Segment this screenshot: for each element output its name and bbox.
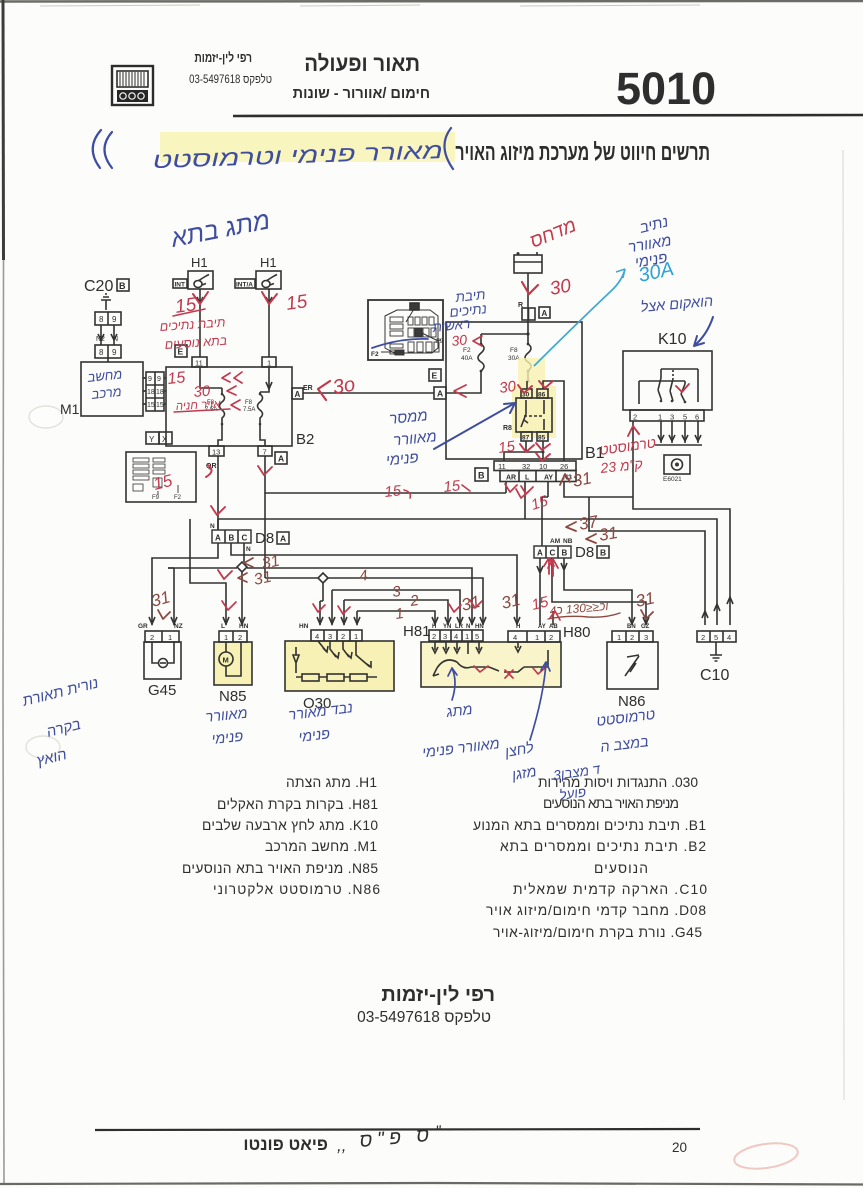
- svg-text:2: 2: [238, 633, 242, 642]
- svg-text:5: 5: [683, 413, 687, 422]
- wire B2 pin7 to B1 AR: [265, 456, 506, 493]
- svg-text:6: 6: [695, 413, 699, 422]
- svg-text:AY: AY: [544, 475, 553, 482]
- svg-text:7.5A: 7.5A: [243, 407, 255, 413]
- svg-text:A: A: [537, 549, 543, 558]
- relay 87/85 wires down: [504, 441, 543, 461]
- svg-text:טלפקס 03-5497618: טלפקס 03-5497618: [357, 1009, 491, 1026]
- fusebox illustration top: [368, 300, 444, 360]
- fuse F2 40A: [478, 344, 484, 371]
- B1 bottom pin strip: [494, 461, 576, 471]
- svg-text:B: B: [600, 548, 606, 558]
- svg-text:2: 2: [549, 633, 553, 642]
- svg-text:N: N: [113, 336, 118, 343]
- handwritten blue note in parens: [444, 128, 453, 169]
- wire B2 pin7 down to row4: [264, 493, 266, 578]
- battery wire down: [527, 273, 529, 322]
- B2 top pin 1: [262, 357, 276, 367]
- K10 ground wires: [661, 421, 698, 443]
- svg-text:40A: 40A: [461, 355, 473, 362]
- red up arrow at D8B: [544, 558, 554, 574]
- svg-text:BN: BN: [627, 624, 636, 630]
- svg-text:2: 2: [701, 633, 705, 642]
- svg-text:E6021: E6021: [663, 476, 682, 483]
- svg-text:31: 31: [634, 588, 656, 611]
- svg-text:AY: AY: [538, 624, 546, 630]
- svg-text:N: N: [210, 523, 215, 530]
- svg-text:9: 9: [112, 348, 117, 357]
- svg-text:2: 2: [432, 632, 436, 641]
- G45 pin1 vertical: [168, 568, 174, 625]
- header: [112, 51, 863, 116]
- O30 pin4 feed: [320, 601, 323, 625]
- svg-text:1: 1: [535, 633, 539, 642]
- svg-text:4: 4: [513, 633, 517, 642]
- connector A box near pin7: [275, 452, 287, 464]
- svg-text:1: 1: [658, 413, 662, 422]
- svg-text:AR: AR: [506, 475, 516, 482]
- svg-text:D8: D8: [575, 544, 594, 561]
- front earth C10: [697, 631, 736, 684]
- svg-text:D08. מחבר קדמי חימום/מיזוג אוי: D08. מחבר קדמי חימום/מיזוג אויר: [486, 903, 706, 918]
- svg-text:M1: M1: [60, 401, 80, 417]
- svg-text:N: N: [246, 546, 251, 553]
- red V on QR wire above D8A: [211, 506, 225, 515]
- svg-text:5: 5: [475, 632, 479, 641]
- red marks inside panel box: [474, 666, 545, 678]
- wire H1#2 down: [268, 289, 270, 357]
- C10 feed arrowheads: [702, 597, 733, 618]
- B2-B1 link wire: [303, 392, 434, 394]
- red 30 at battery: [522, 282, 538, 294]
- svg-text:A: A: [437, 389, 443, 399]
- svg-text:1: 1: [617, 633, 621, 642]
- svg-text:1: 1: [354, 632, 358, 641]
- left edge scan line: [2, 0, 6, 260]
- wire AY down to D8B: [542, 482, 548, 547]
- svg-text:15: 15: [384, 482, 403, 501]
- svg-text:9: 9: [157, 376, 161, 383]
- svg-text:K10. מתג לחץ ארבעה שלבים: K10. מתג לחץ ארבעה שלבים: [202, 818, 378, 833]
- svg-text:4: 4: [727, 633, 731, 642]
- red Vs at B1 AR L cells: [505, 484, 533, 494]
- red arrow near B1 A: [454, 385, 466, 397]
- svg-text:F8: F8: [510, 347, 518, 354]
- svg-text:15: 15: [497, 438, 517, 457]
- svg-text:M1. מחשב המרכב: M1. מחשב המרכב: [265, 839, 377, 854]
- svg-text:A: A: [542, 309, 548, 318]
- svg-text:N85. מניפת האויר בתא הנוסעים: N85. מניפת האויר בתא הנוסעים: [182, 861, 378, 876]
- svg-text:M: M: [223, 656, 229, 665]
- svg-text:B: B: [119, 281, 126, 291]
- svg-text:15: 15: [167, 369, 187, 388]
- svg-text:AB: AB: [549, 624, 558, 630]
- svg-text:C: C: [550, 549, 556, 558]
- svg-text:B2: B2: [296, 431, 314, 448]
- svg-text:1: 1: [267, 359, 271, 368]
- svg-text:N2: N2: [96, 336, 105, 343]
- svg-text:ER: ER: [303, 385, 313, 392]
- connector E label left of wire: [175, 345, 187, 357]
- svg-text:N85: N85: [219, 688, 247, 705]
- thermostat N86: [607, 624, 658, 710]
- svg-text:B: B: [562, 549, 568, 558]
- schematic printed: [60, 255, 444, 502]
- svg-text:3o: 3o: [331, 373, 357, 399]
- B1 left E box: [429, 369, 441, 381]
- svg-text:15: 15: [443, 477, 462, 496]
- red arrow K10 pin2 wire: [628, 426, 639, 436]
- svg-text:C20: C20: [84, 278, 113, 295]
- svg-text:5: 5: [714, 633, 718, 642]
- svg-text:GZ: GZ: [641, 624, 650, 630]
- svg-text:פנימי: פנימי: [385, 449, 419, 469]
- connector D8 A: [210, 523, 289, 553]
- Y X boxes: [146, 432, 159, 444]
- svg-text:B: B: [478, 471, 485, 481]
- red V at B2 pin7 bottom: [258, 466, 272, 475]
- cyan pointer line: [534, 269, 625, 366]
- svg-text:HN: HN: [239, 623, 249, 630]
- connector C20 label: [84, 278, 129, 362]
- wires with arrows between connectors: [101, 325, 114, 345]
- handwritten annotations: [20, 206, 714, 803]
- footer rule: [95, 1129, 700, 1130]
- svg-text:8: 8: [99, 348, 104, 357]
- wires middle: [149, 421, 733, 625]
- M1 pin columns: [146, 372, 164, 411]
- svg-text:תרשים חיווט של מערכת מיזוג האו: תרשים חיווט של מערכת מיזוג האויר: [455, 140, 710, 166]
- pink blob bottom right: [733, 1140, 800, 1173]
- svg-text:H1. מתג הצתה: H1. מתג הצתה: [286, 775, 377, 790]
- svg-text:INT/A: INT/A: [236, 282, 253, 289]
- svg-text:H: H: [432, 624, 436, 630]
- svg-text:26: 26: [560, 462, 568, 471]
- red V at N85 pin1: [218, 570, 232, 579]
- blower N85: [214, 623, 252, 705]
- node diamond row31: [237, 562, 247, 572]
- svg-text:E: E: [432, 371, 438, 381]
- svg-text:3: 3: [443, 632, 447, 641]
- connector D8 B: [534, 538, 609, 561]
- svg-text:H1: H1: [191, 255, 208, 270]
- svg-text:13: 13: [212, 448, 220, 457]
- svg-text:2: 2: [630, 633, 634, 642]
- svg-text:1: 1: [465, 632, 469, 641]
- wire to C10 pin2: [589, 497, 705, 625]
- svg-text:18: 18: [147, 389, 155, 396]
- B1 left A box: [434, 387, 446, 399]
- B2 internal wires + fuses: [200, 367, 269, 392]
- svg-text:רפי לין-יזמות: רפי לין-יזמות: [194, 51, 252, 65]
- fuse F8b: [258, 392, 263, 424]
- F8 yellow highlight: [518, 358, 545, 386]
- svg-text:18: 18: [156, 389, 164, 396]
- maroon 37 arrow: [566, 522, 576, 531]
- wire H1#1 down: [199, 289, 201, 357]
- svg-text:15: 15: [156, 402, 164, 409]
- svg-text:AM: AM: [550, 538, 560, 545]
- fuse F8 30A: [525, 344, 531, 371]
- connector pins 8 9 lower: [95, 345, 121, 358]
- arrowheads into pins: [149, 617, 245, 624]
- svg-text:A: A: [295, 390, 301, 399]
- svg-text:A: A: [215, 534, 221, 543]
- D8B cellA to H80 pin1: [537, 558, 543, 625]
- svg-text:R8: R8: [503, 425, 512, 432]
- fusebox B2: [166, 357, 314, 470]
- fuse/relay box B1: [303, 322, 605, 482]
- svg-text:טלפקס 03-5497618: טלפקס 03-5497618: [189, 72, 272, 86]
- svg-text:2: 2: [341, 632, 345, 641]
- svg-text:H81: H81: [403, 623, 431, 640]
- svg-text:F2: F2: [463, 347, 471, 354]
- D8A below: to G45 pin2: [152, 543, 218, 625]
- punch hole 2: [26, 736, 60, 758]
- top edge scan line: [0, 0, 863, 3]
- fuse F8a: [220, 388, 225, 424]
- svg-text:11: 11: [195, 359, 203, 368]
- svg-text:H: H: [516, 624, 520, 630]
- svg-text:30: 30: [498, 378, 518, 397]
- resistor pack O30: [285, 623, 394, 712]
- relay 86 wire to pin 26: [543, 381, 564, 461]
- B2 bottom pin 13: [209, 446, 224, 456]
- fusebox illustration lower: [126, 452, 196, 502]
- svg-text:N: N: [466, 624, 470, 630]
- svg-text:תאור ופעולה: תאור ופעולה: [304, 51, 420, 76]
- H80 pin2 stub: [552, 611, 554, 625]
- bottom edge scan line: [0, 1183, 863, 1185]
- svg-text:F9: F9: [436, 339, 444, 345]
- svg-text:2: 2: [150, 633, 154, 642]
- svg-text:A: A: [280, 534, 286, 544]
- svg-text:87: 87: [522, 435, 530, 442]
- svg-text:7: 7: [263, 448, 267, 457]
- svg-text:רפי לין-יזמות: רפי לין-יזמות: [381, 984, 495, 1006]
- control panel H81/H80: [403, 623, 591, 687]
- svg-text:F2: F2: [174, 495, 182, 501]
- svg-text:9: 9: [148, 376, 152, 383]
- svg-text:4: 4: [315, 632, 319, 641]
- component internals: [303, 252, 712, 483]
- B2 bottom pin 7: [258, 446, 272, 456]
- svg-text:1: 1: [224, 633, 228, 642]
- row1 O30pin1 to H81pin2: [357, 611, 435, 625]
- red chevrons at O30 pins: [313, 604, 350, 614]
- battery: [514, 252, 550, 322]
- ignition switch H1 #2: [235, 255, 281, 357]
- svg-text:HN: HN: [299, 623, 309, 630]
- relay R8: [503, 381, 552, 442]
- node diamond row4b: [318, 573, 328, 583]
- svg-text:31: 31: [597, 523, 619, 545]
- svg-text:5010: 5010: [616, 63, 716, 114]
- svg-text:30: 30: [548, 275, 573, 299]
- row3 O30pin3 to H81pin4: [332, 590, 460, 625]
- svg-text:NB: NB: [563, 538, 573, 545]
- ground at C20: [101, 294, 111, 310]
- B connector box left of strip: [475, 468, 488, 481]
- svg-text:C10: C10: [700, 667, 729, 684]
- svg-text:8: 8: [99, 315, 104, 324]
- svg-text:Y: Y: [149, 435, 155, 444]
- svg-text:NZ: NZ: [174, 623, 183, 630]
- svg-text:32: 32: [522, 462, 530, 471]
- svg-text:K10: K10: [658, 331, 687, 348]
- E6021 ground point: [664, 455, 690, 474]
- D8B cellC to N86 pin3: [552, 558, 646, 625]
- svg-text:10: 10: [539, 462, 547, 471]
- svg-text:L: L: [525, 475, 530, 482]
- stamp + footer: [95, 984, 700, 1155]
- punch hole 1: [29, 406, 63, 428]
- svg-text:G45: G45: [148, 682, 176, 699]
- long wire L-net to C10 pin5: [218, 482, 717, 626]
- svg-text:1: 1: [168, 633, 172, 642]
- svg-text:C: C: [242, 534, 248, 543]
- title row: [93, 128, 710, 173]
- relay highlight: [512, 386, 556, 438]
- svg-text:3: 3: [328, 632, 332, 641]
- svg-text:פנימי: פנימי: [211, 729, 244, 748]
- svg-text:,,: ,,: [337, 1136, 346, 1155]
- bottom components: [138, 623, 736, 712]
- svg-text:30: 30: [193, 383, 212, 401]
- svg-text:L: L: [221, 623, 225, 630]
- svg-text:F9: F9: [152, 495, 160, 501]
- maroon 31 arrow: [586, 534, 596, 543]
- wire N3 jog: [564, 482, 633, 498]
- svg-text:2: 2: [633, 413, 637, 422]
- svg-text:מתג: מתג: [445, 702, 474, 721]
- header rule: [233, 115, 863, 116]
- B1 internal bus: [526, 332, 529, 335]
- svg-text:B1. תיבת נתיכים וממסרים בתא המ: B1. תיבת נתיכים וממסרים בתא המנוע: [473, 818, 706, 833]
- svg-text:חימום /אוורור - שונות: חימום /אוורור - שונות: [293, 86, 430, 102]
- svg-text:85: 85: [538, 435, 546, 442]
- computer M1 box: [60, 362, 172, 444]
- svg-text:YN: YN: [443, 624, 451, 630]
- svg-text:37: 37: [577, 512, 599, 534]
- connector pins 8 9 upper: [95, 312, 121, 325]
- svg-text:N86: N86: [618, 693, 646, 710]
- B2 top pin 11: [192, 357, 207, 367]
- pressure switch K10: [623, 331, 712, 483]
- N85 pin1 feed: [190, 519, 226, 625]
- svg-text:פיאט פונטו: פיאט פונטו: [243, 1135, 328, 1154]
- svg-text:INT: INT: [175, 282, 186, 289]
- wire D8A B-cell to row4: [231, 543, 517, 625]
- svg-text:20: 20: [672, 1140, 687, 1155]
- svg-text:11: 11: [498, 462, 506, 471]
- svg-text:H80: H80: [563, 624, 591, 641]
- H81 internals: [435, 642, 479, 654]
- red up arrow at H80 pin2: [548, 559, 558, 576]
- svg-text:N86. טרמוסטט אלקטרוני: N86. טרמוסטט אלקטרוני: [213, 882, 380, 897]
- svg-text:B: B: [229, 534, 235, 543]
- footer handwritten nickname: [337, 1123, 442, 1155]
- svg-text:3: 3: [670, 413, 674, 422]
- red 30 on ER wire: [318, 381, 330, 400]
- svg-text:GR: GR: [138, 623, 148, 630]
- svg-text:9: 9: [112, 315, 117, 324]
- svg-text:D8: D8: [255, 530, 274, 547]
- svg-text:F2: F2: [371, 351, 379, 358]
- svg-text:HN: HN: [475, 624, 484, 630]
- F2 wire to left connector: [446, 371, 481, 393]
- svg-text:15: 15: [147, 402, 155, 409]
- svg-text:31: 31: [252, 569, 273, 589]
- row2 O30pin2 to H81pin3: [344, 600, 448, 625]
- svg-text:X: X: [162, 435, 168, 444]
- legend: [182, 775, 707, 940]
- svg-text:4: 4: [454, 632, 458, 641]
- svg-text:31: 31: [571, 468, 593, 491]
- maroon 31 right of N3: [560, 474, 570, 485]
- svg-text:B2. תיבת נתיכים וממסרים בתא: B2. תיבת נתיכים וממסרים בתא: [500, 839, 706, 854]
- right side faint page edge: [843, 150, 844, 1100]
- svg-text:G45. נורת בקרת חימום/מיזוג-אוי: G45. נורת בקרת חימום/מיזוג-אויר: [493, 925, 702, 940]
- B2 right connector A: [292, 388, 303, 399]
- ignition switch H1 #1: [173, 255, 213, 357]
- svg-text:הנוסעים: הנוסעים: [594, 861, 648, 876]
- svg-text:A: A: [278, 454, 284, 464]
- svg-text:LR: LR: [455, 624, 464, 630]
- svg-text:H1: H1: [260, 255, 277, 270]
- red chevrons at H81 pins: [449, 600, 482, 612]
- wire B2 pin13 down to D8A: [217, 456, 219, 530]
- wire K10 pin2 down to C10 pin4: [633, 421, 730, 625]
- M1-B2 connect wires: [143, 378, 146, 404]
- logo box: [112, 66, 153, 105]
- svg-text:15: 15: [285, 291, 309, 315]
- svg-text:H81. בקרות בקרת האקלים: H81. בקרות בקרת האקלים: [217, 797, 378, 812]
- K10 pin strip: [630, 410, 704, 421]
- svg-text:F8: F8: [245, 400, 253, 406]
- D8B cellB to N86 pin2: [561, 558, 632, 625]
- svg-text:3: 3: [644, 633, 648, 642]
- red V on K10 switch: [676, 384, 689, 392]
- O30 internals: [293, 647, 299, 673]
- yellow highlight behind handwritten note: [160, 132, 455, 162]
- lamp G45: [138, 623, 183, 699]
- blue relay pointer arrow: [434, 403, 515, 449]
- svg-text:30: 30: [451, 331, 468, 349]
